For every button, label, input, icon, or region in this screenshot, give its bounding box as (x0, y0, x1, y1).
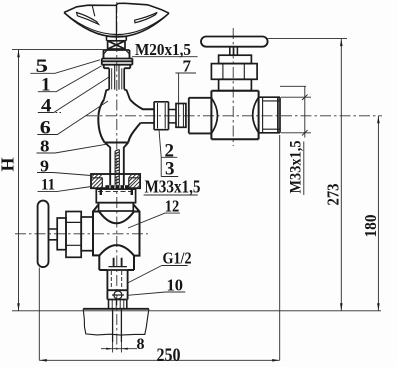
connecting pipe between valves (154, 102, 168, 130)
lower valve handwheel (38, 201, 49, 268)
mounting face line (12, 310, 381, 312)
arrow 180 top (377, 116, 380, 123)
leader item 12 (128, 213, 180, 228)
right bonnet base (219, 79, 252, 90)
valve body item 6/8 (98, 100, 154, 143)
arrow 273 top (340, 39, 343, 46)
svg-text:7: 7 (183, 57, 192, 76)
G1/2 nipple (107, 270, 127, 290)
leader item 8 (37, 144, 107, 153)
arrow 250 left (40, 359, 47, 362)
svg-text:H: H (0, 157, 18, 171)
lower gland flange (57, 218, 66, 250)
leader item 9 (37, 173, 91, 176)
lower valve body item 12 (93, 204, 140, 270)
dim 273 extension from handle (268, 38, 347, 40)
spindle stem item 4 (109, 65, 124, 90)
leader items 2 3 (159, 130, 178, 177)
right valve inlet boss (189, 98, 212, 134)
M33 tick slashes (302, 94, 308, 135)
leader item 4 (38, 77, 109, 113)
leader item 10 (128, 292, 186, 295)
svg-text:9: 9 (40, 157, 49, 176)
arrow H top (17, 50, 20, 57)
right valve body (211, 91, 258, 140)
nipple between nuts (169, 110, 177, 123)
bonnet cone item 6 (104, 89, 130, 99)
union nut item 7 (176, 104, 186, 128)
dim 8 line (101, 348, 137, 350)
centerline right valve vertical (232, 28, 234, 146)
M33 text underline vertical (303, 141, 305, 195)
handwheel (64, 3, 169, 40)
svg-text:10: 10 (167, 276, 184, 295)
svg-text:M33x1,5: M33x1,5 (288, 141, 305, 194)
arrow H bottom (17, 303, 20, 310)
right bonnet collar (219, 55, 252, 63)
adapter hatching left (91, 174, 102, 188)
handwheel hub (107, 36, 127, 41)
packing seat dark band (105, 185, 128, 189)
arrow 8 right (122, 348, 128, 350)
underline M20 (132, 56, 198, 58)
band2 collar (99, 203, 134, 211)
lower boss (81, 217, 93, 251)
svg-text:180: 180 (361, 215, 380, 238)
mounting boss plate (83, 309, 149, 335)
bonnet nut band1 of lower valve (96, 189, 135, 203)
svg-text:G1/2: G1/2 (163, 249, 192, 268)
leader item 7 (175, 73, 196, 103)
dim 250 line (39, 359, 279, 361)
stem nut X-box (108, 41, 125, 49)
dim H extension top (12, 49, 104, 51)
centerline main vertical axis (116, 2, 118, 352)
adapter hatching right (129, 174, 140, 188)
svg-text:250: 250 (157, 345, 181, 366)
svg-text:8: 8 (40, 137, 50, 156)
svg-text:6: 6 (40, 118, 51, 139)
right valve handle (201, 37, 268, 47)
leader item 5 (30, 60, 100, 74)
dim 250 ext left from lower wheel (38, 268, 40, 361)
right hex nut (211, 64, 257, 80)
leader G1/2 (128, 266, 188, 284)
dim 180 vertical line (377, 116, 379, 311)
svg-text:M33x1,5: M33x1,5 (145, 177, 201, 197)
svg-text:4: 4 (41, 96, 52, 117)
arrow 180 bottom (377, 303, 380, 310)
right outlet threaded pipe (259, 97, 280, 133)
arrow 250 right (272, 359, 279, 362)
dim H vertical line (18, 50, 20, 311)
tail pipe through plate (113, 309, 122, 342)
svg-text:12: 12 (165, 197, 180, 216)
threaded tail neck (109, 300, 127, 309)
union adapter item 11 (91, 174, 140, 188)
gland nut item 5 (102, 50, 133, 68)
hidden passage stubs (109, 258, 127, 267)
arrow 8 left (106, 348, 112, 350)
dim 273 vertical line (340, 39, 342, 311)
underline M33 left (144, 194, 198, 196)
lock nut item 10 (107, 290, 127, 299)
dim 250 ext right from pipe end (279, 135, 281, 360)
lower hex nut (66, 212, 81, 258)
leader item 11 (38, 187, 92, 192)
threaded spindle lower item 9 (115, 150, 119, 186)
dim 8 ext lines (113, 342, 122, 353)
arrow 273 bottom (340, 303, 343, 310)
centerline lower valve horizontal (15, 233, 148, 235)
leader item 6 (37, 101, 108, 135)
svg-text:11: 11 (41, 177, 55, 194)
centerline upper horizontal axis (86, 115, 382, 117)
leader item 1 (38, 66, 102, 92)
lower valve stem (49, 229, 58, 240)
svg-text:8: 8 (137, 336, 145, 353)
dim M33 right ext lines (280, 86, 306, 137)
svg-text:273: 273 (324, 184, 343, 206)
right valve stem (230, 47, 238, 56)
lower neck trapezoid (105, 143, 128, 186)
svg-text:1: 1 (41, 75, 51, 96)
